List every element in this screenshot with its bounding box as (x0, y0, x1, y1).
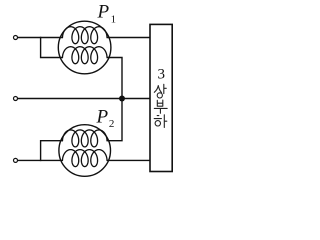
wire P2 voltage branch (41, 141, 63, 161)
wire top line terminal to P1 current coil (17, 37, 63, 39)
svg-text:1: 1 (111, 13, 117, 25)
svg-text:2: 2 (109, 118, 115, 130)
wire P1 current coil to load (107, 37, 150, 39)
wire P1 voltage branch (41, 37, 63, 58)
hangul ha (154, 115, 167, 128)
svg-text:3: 3 (158, 67, 166, 83)
terminal 1 (14, 36, 18, 40)
wire P1 voltage coil to node (107, 58, 122, 99)
hangul bu (154, 100, 167, 113)
wattmeter P2 circle (59, 125, 111, 177)
hangul sang (154, 84, 166, 98)
wire P2 current coil to load (107, 159, 150, 161)
svg-text:P: P (96, 106, 109, 127)
terminal 2 (14, 97, 18, 101)
coil P2 current (63, 150, 108, 167)
wattmeter P1 circle (58, 21, 111, 74)
svg-text:P: P (97, 1, 110, 22)
coil P1 voltage (63, 47, 108, 64)
wire bottom line terminal to P2 current coil (17, 159, 63, 161)
coil P1 current (63, 27, 108, 44)
coil P2 voltage (63, 130, 108, 147)
wire node to P2 voltage coil (107, 99, 122, 141)
junction node dot (119, 96, 125, 102)
load box (150, 24, 172, 171)
wire middle line terminal to load (17, 98, 150, 100)
terminal 3 (14, 158, 18, 162)
